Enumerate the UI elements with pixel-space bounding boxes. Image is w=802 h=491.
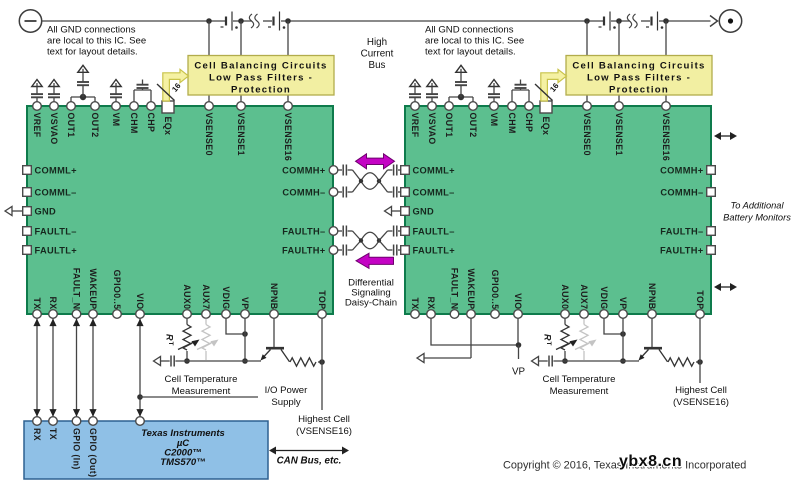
svg-text:TX: TX <box>32 297 42 309</box>
bus junction node x=666 <box>663 18 669 24</box>
pin COMML+ (U2) <box>401 165 455 175</box>
svg-text:Cell Balancing Circuits: Cell Balancing Circuits <box>194 61 327 72</box>
emitter resistor to highest cell (right) <box>668 358 703 366</box>
arrow into positive terminal <box>710 16 718 27</box>
svg-text:VSENSE16: VSENSE16 <box>661 113 671 162</box>
svg-text:AUX0: AUX0 <box>182 284 192 309</box>
svg-text:OUT1: OUT1 <box>444 113 454 138</box>
cell balancing circuits box (right) <box>566 56 712 96</box>
pin FAULTH+ (U2) <box>660 245 715 255</box>
svg-text:FAULTL–: FAULTL– <box>413 226 455 236</box>
svg-text:FAULTH–: FAULTH– <box>660 226 703 236</box>
pin TOP bottom (U1) <box>317 290 327 318</box>
svg-text:Cell Balancing Circuits: Cell Balancing Circuits <box>572 61 705 72</box>
svg-text:VSVAO: VSVAO <box>427 113 437 145</box>
pin RX bottom (U2) <box>426 296 436 318</box>
MCU pin GPIO (In) <box>72 417 82 470</box>
high current bus wire (top) <box>42 20 711 22</box>
pin COMMH– (U2) <box>660 187 715 197</box>
C-VM bypass cap + gnd arrow (right) <box>488 80 500 102</box>
pin VIO bottom (U1) <box>135 293 145 318</box>
svg-text:FAULTH+: FAULTH+ <box>282 245 326 255</box>
svg-text:OUT1: OUT1 <box>66 113 76 138</box>
svg-text:VSENSE16: VSENSE16 <box>283 113 293 162</box>
pin VSENSE1 (U1) <box>236 102 246 156</box>
svg-text:T: T <box>545 342 552 346</box>
label: Differential Signaling Daisy-Chain <box>345 278 397 309</box>
pin WAKEUP bottom (U1) <box>88 268 98 318</box>
battery monitor IC U2 (right) <box>405 106 711 314</box>
pin VSENSE16 (U1) <box>283 102 293 161</box>
svg-text:VREF: VREF <box>32 113 42 138</box>
svg-text:GND: GND <box>413 206 435 216</box>
bus junction node x=587 <box>584 18 590 24</box>
bus junction node x=241 <box>238 18 244 24</box>
pin GPIO0..5 bottom (U2) <box>490 270 500 319</box>
svg-text:COMMH+: COMMH+ <box>282 165 326 175</box>
pin VSVAO (U2) <box>427 102 437 145</box>
more-cells break mark <box>249 14 259 28</box>
pin OUT2 (U1) <box>90 102 100 138</box>
svg-text:NPNB: NPNB <box>269 283 279 310</box>
svg-text:VM: VM <box>489 113 499 127</box>
svg-text:RX: RX <box>48 296 58 309</box>
pin VM (U1) <box>111 102 121 127</box>
svg-text:Daisy-Chain: Daisy-Chain <box>345 298 397 309</box>
pin OUT1 (U2) <box>444 102 454 138</box>
pin VSENSE1 (U2) <box>614 102 624 156</box>
unused aux divider (grayed) (left) <box>197 319 219 360</box>
OUT1/OUT2 tie + cap + gnd arrow (left) <box>71 65 95 102</box>
purple bidirectional comm arrow <box>356 154 395 169</box>
cell temp sense line w/ cap (left) <box>154 356 262 367</box>
svg-text:(VSENSE16): (VSENSE16) <box>673 397 729 408</box>
pin EQx (U1) <box>162 101 174 135</box>
pin CHP (U2) <box>524 102 534 133</box>
svg-text:text for layout details.: text for layout details. <box>47 47 138 58</box>
svg-text:VSENSE1: VSENSE1 <box>614 113 624 156</box>
expansion arrow bottom-right <box>714 283 737 291</box>
microcontroller block <box>24 421 268 479</box>
svg-text:COMML+: COMML+ <box>35 165 78 175</box>
svg-text:R: R <box>543 334 553 341</box>
pin FAULT_N bottom (U1) <box>72 268 82 319</box>
pin COMMH+ (U2) <box>660 165 715 175</box>
svg-text:TOP: TOP <box>317 290 327 309</box>
svg-text:FAULTL+: FAULTL+ <box>35 245 78 255</box>
svg-text:VSENSE1: VSENSE1 <box>236 113 246 156</box>
svg-text:RX: RX <box>426 296 436 309</box>
NPN transistor Q (left) <box>261 319 290 362</box>
svg-text:VIO: VIO <box>135 293 145 309</box>
pin FAULTL+ (U1) <box>23 245 78 255</box>
bus junction node x=209 <box>206 18 212 24</box>
svg-text:TX: TX <box>410 297 420 309</box>
CHM/CHP flying cap (left) <box>134 80 151 102</box>
svg-text:COMML–: COMML– <box>413 187 455 197</box>
svg-text:To Additional: To Additional <box>730 201 784 211</box>
cell tap wire x=209 (left) <box>208 21 210 102</box>
pin WAKEUP bottom (U2) <box>466 268 476 318</box>
more-cells break mark (right) <box>627 14 637 28</box>
pin TX bottom (U1) <box>32 297 42 318</box>
pin AUX0 bottom (U2) <box>560 284 570 318</box>
cell temp sense line w/ cap (right) <box>532 356 640 367</box>
VP wire (right) <box>620 319 626 364</box>
svg-text:WAKEUP: WAKEUP <box>466 268 476 309</box>
svg-text:VP: VP <box>240 297 250 310</box>
CAN bus arrow <box>269 447 349 455</box>
pin AUX7 bottom (U2) <box>579 284 589 318</box>
CHM/CHP flying cap (right) <box>512 80 529 102</box>
svg-text:EQx: EQx <box>541 117 551 136</box>
svg-text:are local to this IC. See: are local to this IC. See <box>47 36 146 47</box>
svg-text:COMMH–: COMMH– <box>660 187 703 197</box>
svg-text:COMML+: COMML+ <box>413 165 456 175</box>
svg-text:VDIG: VDIG <box>599 286 609 309</box>
svg-text:text for layout details.: text for layout details. <box>425 47 516 58</box>
svg-text:Bus: Bus <box>369 60 386 71</box>
svg-text:Highest Cell: Highest Cell <box>298 414 350 425</box>
battery cell B1 <box>221 12 238 31</box>
C-VM bypass cap + gnd arrow (left) <box>110 80 122 102</box>
svg-text:CHP: CHP <box>524 113 534 133</box>
expansion arrow top-right <box>714 132 737 140</box>
GND stub arrow (U1 left) <box>5 206 23 215</box>
pin EQx (U2) <box>540 101 552 135</box>
TOP wire to highest cell (right) <box>699 319 701 383</box>
svg-text:VDIG: VDIG <box>221 286 231 309</box>
svg-text:FAULT_N: FAULT_N <box>450 268 460 310</box>
pin NPNB bottom (U2) <box>647 283 657 318</box>
VDIG tie to VP (left) <box>226 319 248 337</box>
svg-text:Low Pass Filters -: Low Pass Filters - <box>209 73 313 84</box>
svg-text:FAULT_N: FAULT_N <box>72 268 82 310</box>
cell tap wire x=241 (left) <box>240 21 242 102</box>
label: VP <box>512 367 526 378</box>
bus junction node x=288 <box>285 18 291 24</box>
pin OUT1 (U1) <box>66 102 76 138</box>
svg-text:EQx: EQx <box>163 117 173 136</box>
pin VSVAO (U1) <box>49 102 59 145</box>
pin FAULTH– (U1) <box>282 226 338 236</box>
pin VP bottom (U1) <box>240 297 250 318</box>
cell tap wire x=288 (left) <box>287 21 289 102</box>
battery monitor IC U1 (left) <box>27 106 333 314</box>
label: Highest Cell (VSENSE16) right <box>673 385 729 408</box>
svg-text:Protection: Protection <box>609 85 669 96</box>
bus width slash "16" (left) <box>157 81 183 101</box>
svg-text:GND: GND <box>35 206 57 216</box>
label: Highest Cell (VSENSE16) left <box>296 414 352 437</box>
svg-text:TMS570™: TMS570™ <box>160 457 205 468</box>
svg-text:are local to this IC. See: are local to this IC. See <box>425 36 524 47</box>
emitter resistor to highest cell (left) <box>290 358 325 366</box>
EQx bus arrow to balancing box (right) <box>541 69 567 101</box>
svg-text:OUT2: OUT2 <box>468 113 478 138</box>
svg-text:VIO: VIO <box>513 293 523 309</box>
battery stack negative terminal circle <box>19 10 41 32</box>
FAULT twisted pair w/ AC coupling caps <box>338 226 401 256</box>
C-VREF bypass cap + gnd arrow (right) <box>409 80 421 102</box>
svg-text:FAULTL–: FAULTL– <box>35 226 77 236</box>
pin VREF (U1) <box>32 102 42 138</box>
pin AUX7 bottom (U1) <box>201 284 211 318</box>
svg-text:Battery Monitors: Battery Monitors <box>723 213 791 223</box>
battery cell B3 <box>599 12 616 31</box>
pin COMML– (U1) <box>23 187 77 197</box>
wire FAULT_N to MCU <box>73 319 80 417</box>
pin FAULTH+ (U1) <box>282 245 338 255</box>
svg-text:RX: RX <box>32 428 42 441</box>
copyright line <box>503 460 746 472</box>
svg-text:VSENSE0: VSENSE0 <box>204 113 214 156</box>
MCU pin TX <box>48 417 58 440</box>
VDIG tie to VP (right) <box>604 319 626 337</box>
svg-text:GPIO0..5: GPIO0..5 <box>490 270 500 310</box>
cell balancing circuits box (left) <box>188 56 334 96</box>
U2 RX/VIO tie to VP net <box>431 319 521 359</box>
svg-text:AUX7: AUX7 <box>201 284 211 309</box>
note: all GND connections (right) <box>425 25 524 58</box>
svg-text:Measurement: Measurement <box>550 386 609 397</box>
pin FAULT_N bottom (U2) <box>450 268 460 319</box>
pin CHM (U2) <box>507 102 517 134</box>
U2 WAKEUP stub arrow <box>417 319 471 363</box>
svg-text:CAN Bus, etc.: CAN Bus, etc. <box>277 456 342 467</box>
pin NPNB bottom (U1) <box>269 283 279 318</box>
svg-text:GPIO0..5: GPIO0..5 <box>112 270 122 310</box>
svg-text:Highest Cell: Highest Cell <box>675 385 727 396</box>
pin GND (U2) <box>401 206 434 216</box>
wire TX to MCU <box>33 319 40 417</box>
pin VSENSE16 (U2) <box>661 102 671 161</box>
cell tap wire x=619 (right) <box>618 21 620 102</box>
svg-text:VM: VM <box>111 113 121 127</box>
MCU pin RX <box>32 417 42 441</box>
svg-text:NPNB: NPNB <box>647 283 657 310</box>
svg-text:COMMH+: COMMH+ <box>660 165 704 175</box>
MCU pin GPIO (Out) <box>88 417 98 478</box>
svg-text:All GND connections: All GND connections <box>47 25 136 36</box>
svg-text:OUT2: OUT2 <box>90 113 100 138</box>
svg-text:GPIO (Out): GPIO (Out) <box>88 428 98 477</box>
C-VSVAO bypass cap + gnd arrow (left) <box>48 80 60 102</box>
svg-text:High: High <box>367 37 387 48</box>
pin GPIO0..5 bottom (U1) <box>112 270 122 319</box>
svg-text:TOP: TOP <box>695 290 705 309</box>
thermistor RT (left) <box>165 319 200 364</box>
svg-text:VREF: VREF <box>410 113 420 138</box>
svg-text:FAULTH+: FAULTH+ <box>660 245 704 255</box>
C-VREF bypass cap + gnd arrow (left) <box>31 80 43 102</box>
pin VSENSE0 (U2) <box>582 102 592 156</box>
EQx bus arrow to balancing box (left) <box>163 69 189 101</box>
battery cell B4 <box>646 12 663 31</box>
pin FAULTH– (U2) <box>660 226 715 236</box>
pin FAULTL– (U1) <box>23 226 77 236</box>
svg-text:I/O Power: I/O Power <box>265 385 308 396</box>
svg-text:Cell Temperature: Cell Temperature <box>165 374 238 385</box>
battery cell B2 <box>268 12 285 31</box>
svg-text:GPIO (In): GPIO (In) <box>72 428 82 470</box>
bus width slash "16" (right) <box>535 81 561 101</box>
battery stack positive terminal circle <box>719 10 741 32</box>
label: CAN Bus, etc. <box>277 456 342 467</box>
svg-text:ybx8.cn: ybx8.cn <box>619 453 682 470</box>
wire VIO / IO power <box>136 319 258 417</box>
COMM twisted pair w/ AC coupling caps <box>338 165 401 198</box>
pin TOP bottom (U2) <box>695 290 705 318</box>
pin RX bottom (U1) <box>48 296 58 318</box>
pin COMMH– (U1) <box>282 187 337 197</box>
svg-text:VP: VP <box>512 367 526 378</box>
TOP wire to highest cell (left) <box>321 319 323 410</box>
svg-text:VSVAO: VSVAO <box>49 113 59 145</box>
note: all GND connections (left) <box>47 25 146 58</box>
svg-text:Protection: Protection <box>231 85 291 96</box>
NPN transistor Q (right) <box>639 319 668 362</box>
OUT1/OUT2 tie + cap + gnd arrow (right) <box>449 65 473 102</box>
pin COMML+ (U1) <box>23 165 77 175</box>
pin VIO bottom (U2) <box>513 293 523 318</box>
pin VSENSE0 (U1) <box>204 102 214 156</box>
bus junction node x=619 <box>616 18 622 24</box>
C-VSVAO bypass cap + gnd arrow (right) <box>426 80 438 102</box>
wire RX to MCU <box>49 319 56 417</box>
pin VP bottom (U2) <box>618 297 628 318</box>
watermark <box>619 453 682 470</box>
pin FAULTL+ (U2) <box>401 245 456 255</box>
svg-text:Measurement: Measurement <box>172 386 231 397</box>
svg-text:FAULTL+: FAULTL+ <box>413 245 456 255</box>
pin VDIG bottom (U2) <box>599 286 609 318</box>
svg-text:AUX7: AUX7 <box>579 284 589 309</box>
svg-text:CHP: CHP <box>146 113 156 133</box>
MCU pin VIO supply <box>136 417 145 426</box>
label: To Additional Battery Monitors <box>723 201 791 223</box>
unused aux divider (grayed) (right) <box>575 319 597 360</box>
pin VREF (U2) <box>410 102 420 138</box>
svg-text:Current: Current <box>361 49 394 60</box>
svg-text:Low Pass Filters -: Low Pass Filters - <box>587 73 691 84</box>
pin OUT2 (U2) <box>468 102 478 138</box>
pin GND (U1) <box>23 206 56 216</box>
svg-text:All GND connections: All GND connections <box>425 25 514 36</box>
svg-text:Cell Temperature: Cell Temperature <box>543 374 616 385</box>
svg-text:CHM: CHM <box>129 113 139 134</box>
wire WAKEUP to MCU <box>89 319 96 417</box>
pin COMML– (U2) <box>401 187 455 197</box>
svg-text:FAULTH–: FAULTH– <box>282 226 325 236</box>
svg-text:COMML–: COMML– <box>35 187 77 197</box>
cell tap wire x=666 (right) <box>665 21 667 102</box>
pin COMMH+ (U1) <box>282 165 338 175</box>
label: High Current Bus <box>361 37 394 71</box>
svg-text:WAKEUP: WAKEUP <box>88 268 98 309</box>
svg-text:VP: VP <box>618 297 628 310</box>
label: Cell Temperature Measurement (right) <box>543 374 616 397</box>
pin FAULTL– (U2) <box>401 226 455 236</box>
pin TX bottom (U2) <box>410 297 420 318</box>
svg-text:VSENSE0: VSENSE0 <box>582 113 592 156</box>
svg-text:CHM: CHM <box>507 113 517 134</box>
label: I/O Power Supply <box>265 385 308 408</box>
svg-text:Supply: Supply <box>271 397 301 408</box>
label: Cell Temperature Measurement (left) <box>165 374 238 397</box>
pin VDIG bottom (U1) <box>221 286 231 318</box>
svg-text:R: R <box>165 334 175 341</box>
GND stub arrow (U2) <box>385 206 401 215</box>
thermistor RT (right) <box>543 319 578 364</box>
pin AUX0 bottom (U1) <box>182 284 192 318</box>
pin VM (U2) <box>489 102 499 127</box>
svg-text:AUX0: AUX0 <box>560 284 570 309</box>
pin CHM (U1) <box>129 102 139 134</box>
pin CHP (U1) <box>146 102 156 133</box>
svg-text:T: T <box>167 342 174 346</box>
VP wire (left) <box>242 319 248 364</box>
svg-text:TX: TX <box>48 428 58 440</box>
cell tap wire x=587 (right) <box>586 21 588 102</box>
svg-text:COMMH–: COMMH– <box>282 187 325 197</box>
purple fault-signal arrow (leftwards) <box>356 253 394 268</box>
svg-text:(VSENSE16): (VSENSE16) <box>296 426 352 437</box>
